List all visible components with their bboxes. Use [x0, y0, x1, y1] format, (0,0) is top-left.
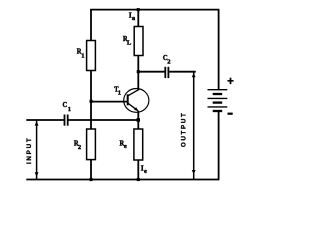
wire: emitter down to RE — [137, 111, 139, 129]
wire: bottom ground rail — [26, 179, 219, 181]
resistor RE (emitter resistor) — [134, 129, 143, 160]
resistor RL (collector load) — [134, 27, 143, 56]
node: R2 ground junction — [90, 178, 93, 181]
capacitor C2 (output coupling) — [164, 67, 166, 78]
battery B1 — [208, 89, 228, 91]
node: supply tap junction — [137, 8, 140, 11]
input port line — [36, 121, 38, 180]
wire: C1 to emitter node (crosses bias rail, no connection) — [69, 119, 139, 121]
svg-text:+: + — [227, 75, 234, 88]
transistor T1: emitter lead with arrow — [128, 103, 138, 111]
wire: left bias rail, R2 to ground rail — [90, 160, 92, 180]
wire: left bias rail, R1 to R2 (base node) — [90, 71, 92, 130]
output port arrow down — [192, 170, 196, 175]
wire: base wire from divider to transistor — [91, 101, 128, 103]
svg-text:L: L — [127, 39, 132, 46]
svg-text:INPUT: INPUT — [26, 137, 33, 164]
wire: RE to ground rail — [137, 160, 139, 180]
svg-text:e: e — [144, 168, 147, 175]
capacitor C1 (input coupling) — [64, 115, 66, 126]
input port arrow down — [35, 172, 39, 177]
transistor T1: collector lead — [128, 90, 139, 96]
svg-text:OUTPUT: OUTPUT — [180, 112, 187, 147]
wire: C2 right plate to output terminal — [169, 71, 196, 73]
output port arrow up — [192, 73, 196, 78]
wire: input line, terminal to C1 — [26, 119, 63, 121]
svg-text:1: 1 — [81, 53, 84, 60]
resistor R2 (lower bias divider) — [87, 129, 96, 160]
svg-text:1: 1 — [118, 90, 121, 97]
svg-text:C: C — [63, 100, 68, 109]
svg-text:1: 1 — [68, 106, 71, 113]
wire: +V supply rail (top horizontal) — [90, 9, 219, 11]
node: emitter input tap junction — [137, 118, 141, 122]
label - (battery negative) — [228, 113, 233, 115]
node: collector output tap junction — [137, 70, 140, 73]
transistor T1: base bar — [127, 94, 129, 105]
resistor R1 (upper bias divider) — [87, 41, 96, 71]
node: RE ground junction — [137, 178, 140, 181]
wire: collector rail, supply to RL — [137, 10, 139, 27]
input port arrow up — [35, 121, 39, 126]
output port line — [193, 72, 195, 179]
wire: battery top lead — [218, 10, 220, 90]
wire: left bias rail, supply to R1 — [90, 10, 92, 41]
wire: collector rail, RL to transistor collector — [137, 56, 139, 91]
wire: collector node to C2 left plate — [138, 71, 164, 73]
node: base tap junction — [90, 100, 93, 103]
wire: battery bottom lead — [218, 111, 220, 180]
transistor T1: envelope circle — [124, 89, 149, 113]
svg-text:e: e — [124, 143, 127, 150]
